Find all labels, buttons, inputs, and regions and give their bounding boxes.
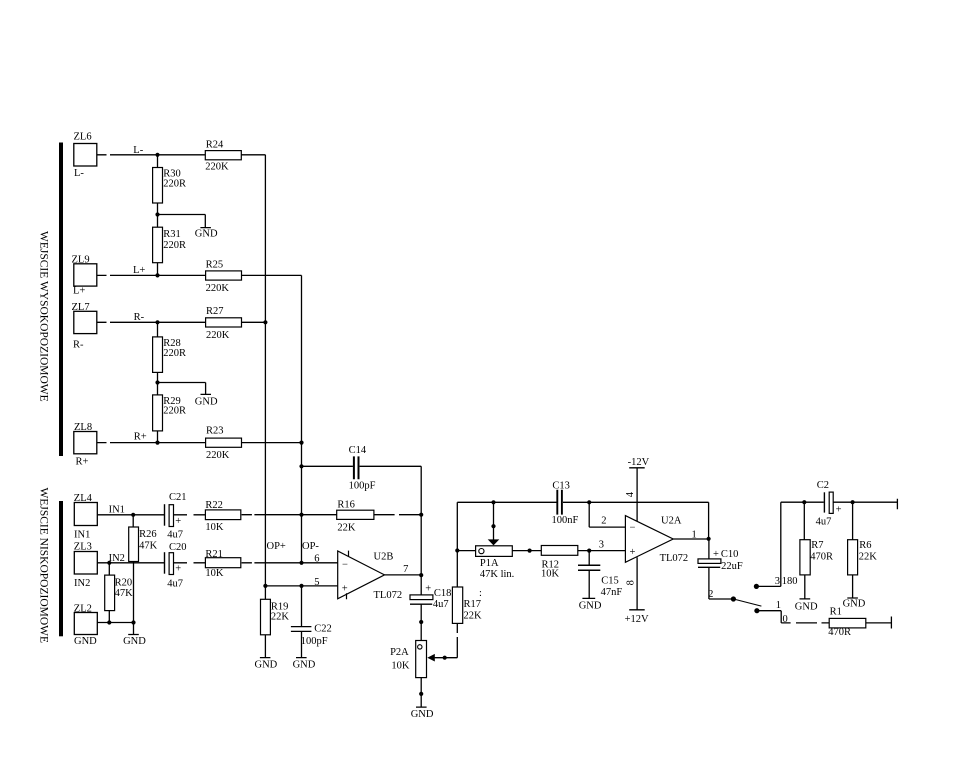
svg-text:22K: 22K bbox=[337, 522, 356, 533]
svg-text:C15: C15 bbox=[601, 576, 619, 587]
svg-text:C14: C14 bbox=[349, 445, 367, 456]
svg-text:R7: R7 bbox=[811, 540, 823, 551]
svg-text:L+: L+ bbox=[133, 265, 145, 276]
svg-text:180: 180 bbox=[782, 576, 798, 587]
svg-text:6: 6 bbox=[314, 553, 319, 564]
svg-text:4u7: 4u7 bbox=[816, 516, 832, 527]
svg-text:GND: GND bbox=[411, 709, 434, 720]
svg-text:100pF: 100pF bbox=[349, 481, 376, 492]
svg-text:ZL3: ZL3 bbox=[74, 541, 92, 552]
svg-text:C20: C20 bbox=[169, 542, 187, 553]
svg-text:+: + bbox=[175, 516, 181, 527]
svg-text:WEJSCIE WYSOKOPOZIOMOWE: WEJSCIE WYSOKOPOZIOMOWE bbox=[38, 231, 50, 402]
svg-text:22K: 22K bbox=[271, 612, 290, 623]
svg-text:22uF: 22uF bbox=[721, 561, 743, 572]
svg-text:+: + bbox=[630, 547, 636, 558]
svg-text:-12V: -12V bbox=[628, 457, 650, 468]
svg-text:P2A: P2A bbox=[390, 647, 409, 658]
svg-text:R+: R+ bbox=[76, 456, 89, 467]
svg-text:R22: R22 bbox=[205, 500, 223, 511]
svg-text:R-: R- bbox=[73, 339, 84, 350]
svg-text:R26: R26 bbox=[139, 529, 157, 540]
svg-text:GND: GND bbox=[579, 600, 602, 611]
svg-text:OP+: OP+ bbox=[267, 541, 286, 552]
svg-text:22K: 22K bbox=[859, 551, 878, 562]
svg-text:ZL2: ZL2 bbox=[74, 603, 92, 614]
svg-text:R17: R17 bbox=[464, 599, 482, 610]
svg-text:10K: 10K bbox=[391, 660, 410, 671]
svg-text:WEJSCIE NISKOPOZIOMOWE: WEJSCIE NISKOPOZIOMOWE bbox=[38, 488, 50, 644]
svg-text:+: + bbox=[713, 549, 719, 560]
svg-text:ZL4: ZL4 bbox=[74, 493, 93, 504]
svg-text:47nF: 47nF bbox=[601, 587, 623, 598]
svg-text:C13: C13 bbox=[552, 481, 570, 492]
svg-text:100nF: 100nF bbox=[552, 515, 579, 526]
svg-text:3: 3 bbox=[775, 576, 780, 587]
svg-text:C18: C18 bbox=[434, 588, 452, 599]
svg-text:U2B: U2B bbox=[374, 552, 394, 563]
svg-text:C10: C10 bbox=[721, 549, 739, 560]
svg-text:10K: 10K bbox=[205, 522, 224, 533]
svg-text:R20: R20 bbox=[115, 578, 133, 589]
svg-text:3: 3 bbox=[599, 540, 604, 551]
svg-text:220R: 220R bbox=[163, 178, 186, 189]
svg-text:+: + bbox=[425, 584, 431, 595]
svg-text:1: 1 bbox=[692, 529, 697, 540]
svg-text:GND: GND bbox=[795, 601, 818, 612]
svg-text:R16: R16 bbox=[337, 499, 355, 510]
svg-text:R31: R31 bbox=[163, 229, 181, 240]
svg-text:−: − bbox=[342, 559, 348, 570]
svg-text:220R: 220R bbox=[163, 348, 186, 359]
svg-text:R6: R6 bbox=[859, 540, 871, 551]
svg-text:7: 7 bbox=[403, 564, 408, 575]
svg-text:1: 1 bbox=[776, 600, 781, 611]
svg-text:R+: R+ bbox=[134, 432, 147, 443]
svg-text:L-: L- bbox=[74, 168, 84, 179]
svg-text:10K: 10K bbox=[205, 568, 224, 579]
svg-text::: : bbox=[479, 588, 482, 599]
svg-text:ZL7: ZL7 bbox=[72, 302, 90, 313]
svg-text:GND: GND bbox=[195, 229, 218, 240]
svg-text:TL072: TL072 bbox=[660, 553, 689, 564]
svg-text:470R: 470R bbox=[810, 551, 833, 562]
svg-text:GND: GND bbox=[293, 660, 316, 671]
svg-text:8: 8 bbox=[626, 580, 637, 585]
svg-text:0: 0 bbox=[783, 614, 788, 625]
svg-text:C22: C22 bbox=[314, 623, 332, 634]
svg-text:220R: 220R bbox=[163, 406, 186, 417]
svg-text:220K: 220K bbox=[206, 283, 230, 294]
svg-text:ZL6: ZL6 bbox=[74, 131, 92, 142]
svg-text:5: 5 bbox=[314, 577, 319, 588]
svg-text:4u7: 4u7 bbox=[167, 530, 183, 541]
svg-text:220K: 220K bbox=[206, 330, 230, 341]
svg-text:+: + bbox=[342, 584, 348, 595]
svg-text:+: + bbox=[836, 505, 842, 516]
svg-text:L+: L+ bbox=[73, 286, 85, 297]
svg-text:+: + bbox=[175, 563, 181, 574]
svg-text:220R: 220R bbox=[163, 240, 186, 251]
svg-text:L-: L- bbox=[133, 145, 143, 156]
svg-text:4u7: 4u7 bbox=[433, 599, 449, 610]
svg-text:U2A: U2A bbox=[661, 516, 682, 527]
svg-text:OP-: OP- bbox=[302, 541, 319, 552]
svg-text:2: 2 bbox=[708, 589, 713, 600]
svg-text:+12V: +12V bbox=[625, 614, 649, 625]
svg-text:220K: 220K bbox=[205, 161, 229, 172]
svg-text:IN2: IN2 bbox=[109, 553, 125, 564]
svg-text:GND: GND bbox=[195, 396, 218, 407]
svg-text:ZL9: ZL9 bbox=[72, 254, 90, 265]
svg-text:22K: 22K bbox=[464, 611, 483, 622]
svg-text:R25: R25 bbox=[206, 260, 224, 271]
svg-text:47K: 47K bbox=[139, 541, 158, 552]
svg-text:2: 2 bbox=[601, 516, 606, 527]
svg-text:R24: R24 bbox=[206, 139, 224, 150]
svg-text:R23: R23 bbox=[206, 425, 224, 436]
svg-text:C2: C2 bbox=[817, 480, 829, 491]
svg-text:47K: 47K bbox=[115, 588, 134, 599]
svg-text:R1: R1 bbox=[830, 607, 842, 618]
svg-text:47K lin.: 47K lin. bbox=[480, 569, 514, 580]
svg-text:R27: R27 bbox=[206, 306, 224, 317]
svg-text:TL072: TL072 bbox=[374, 590, 403, 601]
svg-text:ZL8: ZL8 bbox=[74, 422, 92, 433]
svg-text:GND: GND bbox=[843, 599, 866, 610]
svg-text:10K: 10K bbox=[541, 568, 560, 579]
svg-text:IN1: IN1 bbox=[109, 505, 125, 516]
svg-text:GND: GND bbox=[255, 660, 278, 671]
svg-text:R21: R21 bbox=[205, 549, 223, 560]
svg-text:IN1: IN1 bbox=[74, 530, 90, 541]
svg-text:−: − bbox=[630, 523, 636, 534]
svg-text:4u7: 4u7 bbox=[167, 578, 183, 589]
svg-text:C21: C21 bbox=[169, 492, 187, 503]
svg-text:100pF: 100pF bbox=[301, 636, 328, 647]
svg-text:R-: R- bbox=[134, 312, 145, 323]
svg-text:GND: GND bbox=[74, 636, 97, 647]
svg-text:470R: 470R bbox=[828, 627, 851, 638]
svg-text:GND: GND bbox=[123, 636, 146, 647]
svg-text:P1A: P1A bbox=[480, 558, 499, 569]
svg-text:IN2: IN2 bbox=[74, 578, 90, 589]
svg-text:220K: 220K bbox=[206, 450, 230, 461]
svg-text:4: 4 bbox=[625, 491, 636, 497]
